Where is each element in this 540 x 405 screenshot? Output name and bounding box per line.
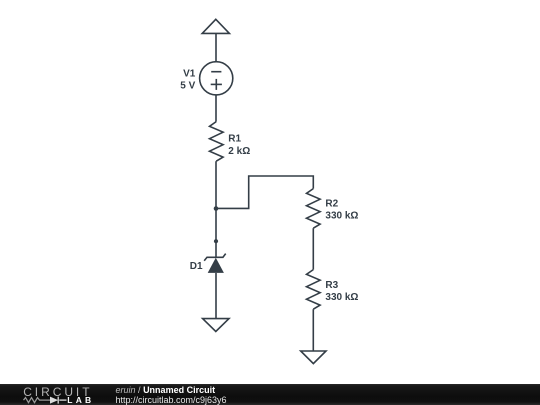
svg-text:R2: R2 — [325, 199, 338, 210]
svg-text:330 kΩ: 330 kΩ — [325, 292, 358, 303]
svg-text:2 kΩ: 2 kΩ — [228, 146, 250, 157]
svg-text:R1: R1 — [228, 133, 241, 144]
svg-text:5 V: 5 V — [180, 81, 195, 92]
svg-text:330 kΩ: 330 kΩ — [325, 211, 358, 222]
svg-text:R3: R3 — [325, 280, 338, 291]
svg-text:V1: V1 — [183, 69, 196, 80]
svg-text:D1: D1 — [190, 261, 203, 272]
